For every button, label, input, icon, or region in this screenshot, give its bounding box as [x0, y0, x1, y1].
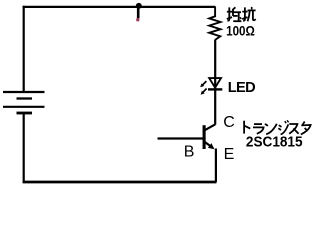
svg-text:E: E — [224, 146, 235, 163]
transistor Q1 2SC1815 base bar — [203, 125, 206, 149]
LED light arrow 2 — [201, 89, 207, 95]
node junction dot on top rail — [136, 3, 142, 9]
svg-text:B: B — [184, 144, 195, 161]
wire emitter to bottom rail — [215, 149, 217, 183]
wire resistor to LED to collector — [214, 40, 216, 125]
label 抵抗 (resistor) kanji 抵 — [227, 7, 242, 21]
transistor emitter stroke with arrow — [205, 142, 215, 149]
svg-text:LED: LED — [228, 80, 255, 96]
label トランジスタ (transistor) katakana ト — [244, 121, 250, 134]
wire bottom rail — [23, 181, 217, 184]
label トランジスタ katakana ス — [289, 124, 298, 134]
wire top rail — [23, 6, 216, 8]
battery — [3, 92, 45, 113]
pin label C (collector) — [223, 114, 235, 131]
red probe tip marker — [136, 18, 139, 21]
LED light arrow 1 — [200, 81, 206, 87]
LED — [208, 78, 222, 89]
label 抵抗 (resistor) kanji 抗 — [242, 7, 256, 21]
transistor collector stroke — [205, 124, 216, 130]
svg-text:C: C — [223, 114, 235, 131]
pin label B (base) — [184, 144, 195, 161]
pin label E (emitter) — [224, 146, 235, 163]
svg-text:100Ω: 100Ω — [226, 22, 255, 38]
wire left vertical (battery + to top rail) — [23, 6, 25, 92]
part number label 2SC1815 — [246, 134, 303, 151]
svg-text:2SC1815: 2SC1815 — [246, 134, 303, 151]
label LED — [228, 80, 255, 96]
label トランジスタ katakana ン — [265, 124, 277, 134]
wire left vertical (battery - to bottom rail) — [23, 113, 25, 183]
value label 100Ω — [226, 22, 255, 38]
label トランジスタ katakana ラ — [253, 124, 264, 134]
wire node stub down — [137, 6, 140, 18]
resistor 100Ω — [209, 7, 220, 40]
label トランジスタ katakana ジ — [278, 120, 288, 134]
wire base lead — [158, 137, 205, 139]
label トランジスタ katakana タ — [301, 122, 311, 135]
